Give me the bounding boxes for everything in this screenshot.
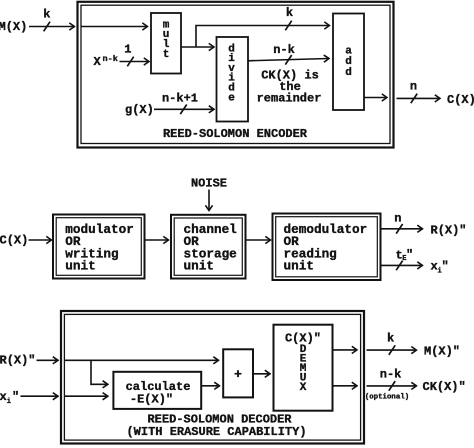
svg-text:k: k: [286, 6, 293, 20]
svg-text:x: x: [0, 390, 7, 404]
wire calculate to adder: [201, 385, 219, 387]
wire into mult: [81, 26, 147, 28]
wire divide to add: [248, 59, 329, 61]
block divide: [217, 37, 249, 122]
svg-text:-E(X)": -E(X)": [130, 392, 173, 406]
block modulator inner: [56, 218, 141, 276]
svg-text:d: d: [345, 67, 352, 79]
wire demux to border (bottom): [333, 385, 357, 387]
svg-text:C(X): C(X): [447, 93, 474, 107]
svg-text:k: k: [387, 331, 394, 345]
svg-text:C(X): C(X): [0, 234, 28, 248]
svg-text:n-k+1: n-k+1: [162, 91, 198, 105]
svg-text:k: k: [43, 8, 50, 22]
svg-text:unit: unit: [65, 258, 95, 273]
wire R(X)" input: [37, 359, 58, 361]
svg-text:": ": [12, 390, 19, 404]
slash k on branch wire: [285, 21, 291, 31]
wire add to border: [364, 97, 387, 99]
slash n on R wire: [396, 224, 402, 234]
wire demodulator to R(X)": [381, 228, 423, 230]
slash on g(X) wire: [180, 105, 186, 115]
slash n on output wire: [411, 94, 417, 104]
slash tE on x wire: [396, 261, 402, 271]
block adder +: [223, 349, 253, 397]
svg-text:CK(X)": CK(X)": [423, 380, 466, 394]
wire M(X) input: [29, 26, 74, 28]
svg-text:(optional): (optional): [365, 393, 409, 401]
wire Xnk into mult: [120, 61, 149, 63]
svg-text:i: i: [7, 398, 11, 406]
encoder outer box: [78, 2, 394, 148]
slash 1 on Xnk wire: [127, 57, 133, 67]
slash n-k on divide wire: [285, 55, 291, 65]
svg-text:n: n: [394, 212, 401, 226]
svg-text:g(X): g(X): [125, 103, 154, 117]
decoder outer box: [61, 311, 364, 444]
svg-text:REED-SOLOMON ENCODER: REED-SOLOMON ENCODER: [163, 127, 308, 141]
wire modulator to channel: [145, 239, 169, 241]
svg-text:n-k: n-k: [273, 43, 295, 57]
slash k on M(X) wire: [44, 22, 50, 32]
wire R branch down to calculate: [91, 360, 107, 384]
block add: [333, 14, 364, 111]
svg-text:NOISE: NOISE: [191, 177, 227, 191]
wire to C(X): [397, 97, 440, 99]
svg-text:R(X)": R(X)": [431, 223, 467, 237]
svg-text:t: t: [163, 49, 170, 61]
slash k on M wire: [389, 345, 395, 355]
slash n-k on CK wire: [389, 381, 395, 391]
svg-text:n-k: n-k: [380, 367, 402, 381]
svg-text:unit: unit: [184, 258, 214, 273]
block demux C(X)": [274, 325, 333, 411]
svg-text:+: +: [234, 367, 242, 382]
block mult: [151, 13, 181, 74]
wire NOISE down into channel: [208, 190, 210, 211]
wire C(X) into modulator: [29, 239, 52, 241]
wire g(X) into divide: [154, 108, 214, 110]
block channel outer: [171, 215, 246, 279]
decoder inner box: [64, 314, 360, 440]
svg-text:M(X)": M(X)": [424, 344, 460, 358]
svg-text:": ": [406, 248, 413, 262]
svg-text:unit: unit: [284, 258, 314, 273]
svg-text:n: n: [410, 80, 417, 94]
wire to M(X)": [367, 349, 417, 351]
wire R inside to adder: [65, 359, 219, 361]
svg-text:n-k: n-k: [103, 54, 118, 64]
wire mult to divide: [181, 46, 214, 48]
wire to CK(X)": [367, 385, 417, 387]
block modulator outer: [53, 215, 145, 279]
svg-text:remainder: remainder: [257, 92, 322, 106]
svg-text:X: X: [300, 382, 307, 394]
wire x_i" input: [21, 395, 58, 397]
wire channel to demodulator: [246, 239, 271, 241]
block channel inner: [174, 218, 242, 275]
svg-text:R(X)": R(X)": [0, 353, 36, 367]
svg-text:": ": [442, 259, 449, 273]
svg-text:e: e: [228, 92, 235, 104]
svg-text:X: X: [94, 55, 102, 69]
wire demodulator to x_i": [381, 264, 423, 266]
block demodulator inner: [276, 217, 378, 277]
encoder inner box: [81, 5, 390, 143]
svg-text:1: 1: [124, 43, 131, 57]
wire x inside to calculate: [65, 395, 108, 397]
wire branch up to add: [196, 26, 329, 48]
wire demux to border (top): [333, 349, 357, 351]
block demodulator outer: [273, 214, 381, 281]
block calculate -E(X)": [113, 372, 201, 409]
wire adder to demux: [253, 373, 270, 375]
svg-text:M(X): M(X): [0, 20, 27, 34]
svg-text:(WITH ERASURE CAPABILITY): (WITH ERASURE CAPABILITY): [126, 425, 306, 439]
